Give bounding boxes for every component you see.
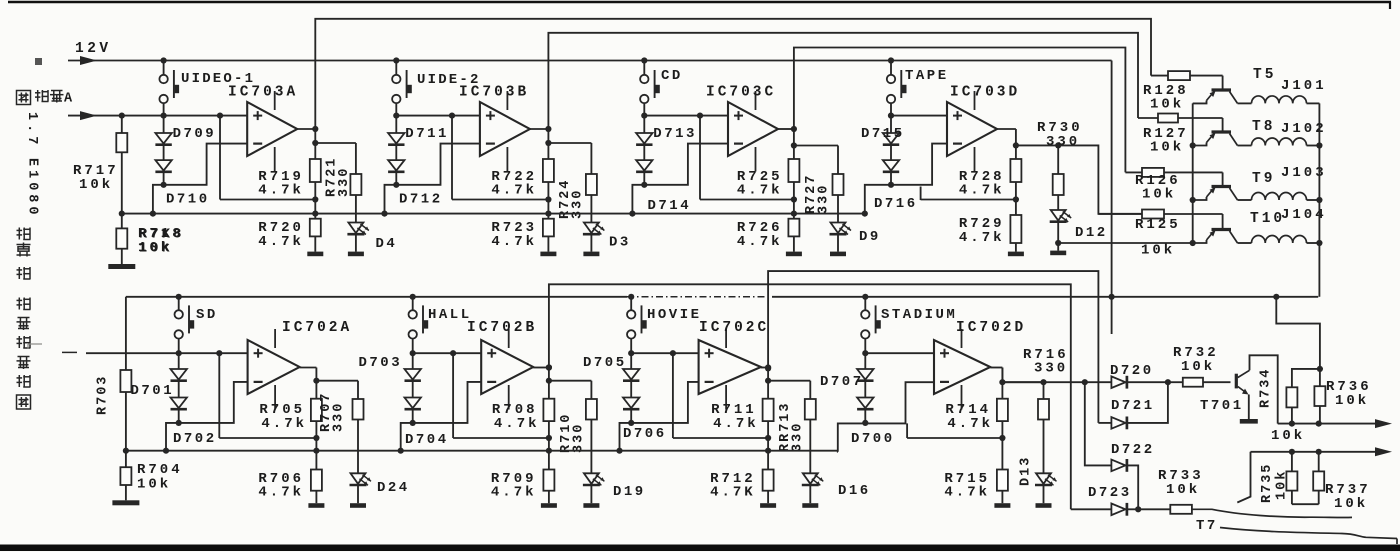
bottom common rail [126,450,838,452]
svg-text:IC703C: IC703C [706,85,776,101]
LED D9 [837,195,839,223]
pushbutton CD (block C) [643,61,645,75]
svg-text:TAPE: TAPE [905,68,949,84]
op-amp IC702C [699,340,761,394]
op-amp output wire (block A) [297,128,315,130]
drive line from IC702D output [1002,381,1084,383]
wire D722 drop from drive line [1085,382,1112,465]
svg-text:D720: D720 [1110,363,1154,379]
svg-text:4.7k: 4.7k [947,416,993,432]
feedback minus wire (block B) [385,144,480,214]
resistor R712 4.7k [767,438,769,470]
svg-text:IC703A: IC703A [228,85,298,101]
svg-text:10k: 10k [79,177,113,193]
input wire to + input (block C) [644,115,728,117]
resistor R720 4.7k [314,200,316,219]
svg-text:10k: 10k [1150,140,1184,156]
ground for D24 [357,485,359,504]
resistor R732 10k [1168,381,1183,383]
resistor R714 4.7k [1001,368,1003,399]
svg-text:D701: D701 [131,383,175,399]
svg-text:4.7K: 4.7K [710,485,756,501]
ground for D19 [590,485,592,504]
resistor R718 10k [119,211,125,217]
ground for R729 [1015,243,1017,252]
svg-text:10k: 10k [1150,97,1184,113]
transistor T701 [1235,374,1238,389]
label 预置A input [37,90,39,102]
node line (block B) [452,199,548,201]
op-amp output wire (block A bottom) [300,367,317,369]
wire rail feed to R734 R736 [1276,297,1320,369]
resistor R725 4.7k [793,129,795,159]
op-amp output wire (block B bottom) [533,367,549,369]
pushbutton SD (block A bottom) [178,297,180,310]
svg-text:D721: D721 [1111,398,1155,414]
transistor T9 [1222,172,1224,185]
resistor R717 10k [119,113,125,119]
feed line from IC702B output to D723 [549,284,1071,509]
feed line from IC703D branch to R125 [1058,145,1142,213]
resistor R711 4.7k [767,368,769,399]
svg-text:D9: D9 [859,229,881,245]
svg-text:D3: D3 [609,235,631,251]
op-amp IC703A [247,102,297,156]
svg-text:D706: D706 [623,426,667,442]
resistor R721 330 [355,143,357,174]
svg-text:D715: D715 [861,126,905,142]
feedback minus wire (block A) [153,144,247,214]
svg-text:D709: D709 [173,126,217,142]
resistor R125 10k [1098,213,1142,215]
bottom input wire (partial) [62,351,77,353]
node line (block A bottom) [219,437,316,439]
svg-text:D707: D707 [820,374,864,390]
input wire to + input (block C bottom) [631,352,698,354]
wire 12V vertical down right side to bottom rail [1111,61,1113,297]
resistor R716 330 [1043,382,1045,399]
svg-text:12V: 12V [75,41,112,57]
diode D720 [1111,376,1125,388]
diode D714 [643,145,645,160]
node riser wire (block D bottom) [906,423,908,438]
wire hook at left of output line 2 [1237,452,1250,503]
LED D13 [1043,420,1045,474]
svg-text:SD: SD [196,307,218,323]
wire joining R735 R737 bottoms [1292,503,1319,505]
ground for R709 [548,491,550,504]
wire branch to RR713 (block C bottom) [768,380,810,382]
resistor R710 330 [590,381,592,399]
op-amp output wire (block C bottom) [761,367,768,369]
pushbutton TAPE (block D) [890,61,892,75]
pushbutton UIDE-2 (block B) [395,61,397,75]
12V supply wire with arrow [68,60,1112,62]
svg-text:330: 330 [332,402,347,432]
svg-text:10k: 10k [137,477,171,493]
input wire to + input (block D) [891,115,947,117]
resistor R709 4.7k [548,438,550,470]
transistor T5 [1222,76,1224,89]
relay coil J102 [1230,134,1238,146]
diode D704 [412,381,414,398]
resistor R128 10k [1151,75,1168,77]
ground for R723 [547,236,549,251]
svg-text:D703: D703 [359,355,403,371]
svg-text:4.7k: 4.7k [959,183,1005,199]
node riser wire (block D) [920,187,922,201]
svg-text:10k: 10k [1275,470,1290,500]
op-amp IC703C [728,102,778,156]
svg-text:330: 330 [791,422,806,452]
output line 1 with arrow [1278,423,1376,425]
node riser wire (block A) [219,116,221,200]
svg-text:IC702C: IC702C [699,320,769,336]
svg-text:D705: D705 [583,355,627,371]
resistor R705 4.7k [315,368,317,399]
top rail (common resistor rail) [122,213,865,215]
wire branch to R724 (block B) [548,142,591,144]
input wire to + input (block D bottom) [865,352,934,354]
svg-text:IC703D: IC703D [950,85,1020,101]
svg-text:10k: 10k [1141,243,1175,259]
resistor R723 4.7k [547,200,549,219]
ground for R720 [314,236,316,251]
svg-text:HALL: HALL [428,307,472,323]
LED D16 [809,420,811,474]
pushbutton STADIUM (block D bottom) [864,297,866,310]
wire branch to R730 (block D) [1016,144,1058,146]
svg-text:4.7k: 4.7k [491,183,537,199]
svg-text:T701: T701 [1200,398,1244,414]
node riser wire (block A bottom) [218,353,220,438]
svg-text:T7: T7 [1196,518,1218,534]
top border line of figure [8,1,1391,4]
resistor R729 4.7k [1015,200,1017,215]
resistor R715 4.7k [1001,438,1003,470]
svg-text:10k: 10k [139,240,173,256]
svg-text:IC703B: IC703B [459,85,529,101]
LED D4 [355,195,357,223]
svg-text:R734: R734 [1259,368,1274,408]
svg-text:330: 330 [572,423,587,453]
resistor R707 330 [357,381,359,399]
diode D701 [178,353,180,369]
node riser wire (block C bottom) [672,353,674,438]
feedback minus wire (block D) [865,144,947,214]
svg-text:D4: D4 [376,236,398,252]
resistor R127 10k [1138,117,1158,119]
feedback minus wire (block A bottom) [166,382,248,451]
svg-text:IC702A: IC702A [282,320,352,336]
input wire to + input (block B) [396,115,480,117]
transistor T10 [1222,214,1224,228]
svg-text:J101: J101 [1281,78,1327,94]
wire branch to R716 (block D bottom) [1002,381,1043,383]
op-amp output wire (block C) [778,128,794,130]
diode D716 [890,145,892,160]
long hand drawn wire to bottom right (T7 base) [1220,528,1397,539]
svg-text:4.7k: 4.7k [494,416,540,432]
op-amp IC702A [248,340,300,394]
svg-text:4.7k: 4.7k [737,183,783,199]
ground for D4 [355,234,357,252]
svg-text:4.7k: 4.7k [737,234,783,250]
diode D709 [163,116,165,133]
transistor T8 [1222,118,1224,131]
svg-text:10k: 10k [1334,496,1368,512]
right edge tick [1396,539,1398,545]
ground for R706 [315,491,317,504]
LED D12 [1057,195,1059,210]
faint mark left of bottom input [28,343,42,345]
relay coil J103 [1230,188,1238,200]
node line (block B bottom) [453,437,549,439]
svg-text:D710: D710 [166,192,210,208]
wire branch to R727 (block C) [794,145,838,147]
svg-text:D702: D702 [173,431,217,447]
svg-text:HOVIE: HOVIE [647,307,702,323]
feed line from IC703B output to R127 [548,33,1138,129]
ground for R726 [793,236,795,251]
svg-text:T8: T8 [1252,119,1275,135]
svg-text:D19: D19 [613,484,646,500]
resistor R719 4.7k [314,129,316,159]
op-amp output wire (block D bottom) [990,367,1002,369]
relay coil J104 [1230,231,1238,243]
LED D24 [357,420,359,474]
LED D3 [590,195,592,223]
svg-text:10k: 10k [1335,393,1369,409]
vertical caption 图1.7 E1080 轻触控制电路原理图 [17,91,31,105]
diode D722 [1111,460,1125,472]
wire T701 collector to output line 1 [1250,355,1278,423]
node line (block D bottom) [907,437,1002,439]
ground for D9 [837,234,839,252]
op-amp IC703B [480,102,530,156]
ground for D13 [1043,485,1045,504]
ground for R712 [767,491,769,504]
resistor R722 4.7k [547,129,549,159]
output line 2 with arrow [1251,451,1377,453]
node riser wire (block C) [699,116,701,200]
svg-text:330: 330 [337,167,352,197]
resistor R735 10k [1291,452,1293,472]
feedback minus wire (block C) [632,144,728,214]
op-amp output wire (block B) [530,128,549,130]
ground for T701 emitter [1248,395,1250,420]
svg-text:4.7k: 4.7k [258,485,304,501]
diode D723 with feed wire [1071,508,1112,510]
bottom border line of figure [0,545,1400,552]
resistor R724 330 [590,143,592,174]
svg-text:IC702D: IC702D [956,320,1026,336]
svg-text:1.7: 1.7 [24,112,39,148]
op-amp output wire (block D) [997,128,1016,130]
svg-text:CD: CD [661,68,683,84]
feedback minus wire (block D bottom) [838,382,934,452]
diode D712 [395,145,397,160]
ground for R718 [121,249,123,264]
op-amp IC702D [934,340,990,394]
resistor R737 10k [1318,452,1320,472]
svg-text:330: 330 [1046,134,1080,150]
svg-text:A: A [64,92,73,107]
node riser wire (block B) [451,116,453,200]
feedback minus wire (block C bottom) [620,382,699,451]
resistor R126 10k [1125,171,1142,173]
speck mark top left [35,58,42,65]
diode D700 [864,381,866,398]
svg-text:D713: D713 [653,126,697,142]
resistor R708 4.7k [548,368,550,399]
pushbutton UIDEO-1 (block A) [163,61,165,75]
relay common vertical to +12V rail [1318,103,1320,296]
diode D721 with feed wire [1098,422,1111,424]
svg-text:4.7k: 4.7k [491,485,537,501]
ground for D3 [590,234,592,252]
bottom section +12V rail (partly dash-dot) [126,296,627,298]
svg-text:STADIUM: STADIUM [881,307,957,323]
svg-text:D716: D716 [874,196,918,212]
svg-text:330: 330 [817,184,832,214]
op-amp IC702B [481,340,533,394]
LED D19 [590,420,592,474]
svg-text:R125: R125 [1135,217,1181,233]
wire branch to R707 (block A bottom) [316,380,358,382]
wire branch to R721 (block A) [315,142,356,144]
resistor R727 330 [837,146,839,175]
diode D710 [163,145,165,160]
resistor R726 4.7k [793,200,795,219]
ground for R715 [1001,491,1003,504]
svg-text:E1080: E1080 [25,158,40,219]
ground for D12 [1057,243,1059,251]
svg-text:D12: D12 [1075,225,1108,241]
diode D715 [890,116,892,133]
svg-text:330: 330 [1034,361,1068,377]
resistor R733 10k [1138,508,1170,510]
svg-text:10k: 10k [1166,482,1200,498]
svg-text:4.7k: 4.7k [258,183,304,199]
svg-text:T9: T9 [1252,171,1275,187]
diode D707 [864,353,866,369]
op-amp IC703D [947,102,997,156]
feed line from IC703C output to R126 [794,48,1126,173]
svg-text:D723: D723 [1088,485,1132,501]
node line (block A) [220,199,315,201]
resistor R703 [125,297,127,370]
svg-text:4.7k: 4.7k [261,416,307,432]
feedback minus wire (block B bottom) [401,382,482,451]
svg-text:D712: D712 [399,192,443,208]
svg-text:4.7k: 4.7k [959,230,1005,246]
svg-text:D711: D711 [405,126,449,142]
diode D703 [412,353,414,369]
resistor RR713 330 [809,381,811,399]
input wire 预置A with arrow [68,115,247,117]
wire emitter rail to D12 ground column [1058,242,1193,244]
node line (block C bottom) [673,437,768,439]
wire R733 to T7 (hand drawn) [1192,509,1352,517]
svg-text:D704: D704 [405,432,449,448]
diode D711 [395,116,397,133]
svg-text:4.7k: 4.7k [713,416,759,432]
svg-text:4.7k: 4.7k [491,234,537,250]
svg-text:R703: R703 [96,375,111,415]
svg-text:D722: D722 [1111,442,1155,458]
wire branch to R710 (block B bottom) [549,380,592,382]
resistor R736 10k [1319,369,1321,386]
svg-text:10k: 10k [1271,428,1305,444]
common emitter rail of T5 T8 T9 T10 [1192,103,1194,243]
resistor R730 330 [1057,145,1059,174]
svg-text:D714: D714 [648,198,692,214]
pushbutton HOVIE (block C bottom) [630,297,632,310]
diode D713 [643,116,645,133]
diode D705 [630,353,632,369]
node line (block D) [921,199,1016,201]
svg-text:D24: D24 [377,480,410,496]
feed line from IC703A output to R128 [315,19,1151,129]
svg-text:10k: 10k [1142,187,1176,203]
relay coil J101 [1230,92,1238,104]
svg-text:D700: D700 [851,431,895,447]
svg-text:T10: T10 [1250,211,1285,227]
resistor R728 4.7k [1015,129,1017,159]
feed line from IC702C output to D721 [768,271,1098,423]
svg-text:D16: D16 [838,483,871,499]
pushbutton HALL (block B bottom) [412,297,414,310]
ground for D16 [809,485,811,504]
node line (block C) [700,199,794,201]
svg-text:D13: D13 [1019,456,1034,486]
resistor R706 4.7k [315,438,317,470]
svg-text:4.7k: 4.7k [944,485,990,501]
diode D706 [630,381,632,398]
svg-text:R735: R735 [1260,463,1275,503]
diode D702 [178,381,180,398]
resistor R734 10k [1292,369,1320,387]
node riser wire (block B bottom) [452,353,454,438]
input wire to + input (block B bottom) [413,352,482,354]
resistor R704 10k [123,448,129,454]
svg-text:10k: 10k [1181,359,1215,375]
svg-text:4.7k: 4.7k [258,234,304,250]
ground for R704 [125,485,127,500]
svg-text:IC702B: IC702B [467,320,537,336]
svg-text:T5: T5 [1253,67,1276,83]
